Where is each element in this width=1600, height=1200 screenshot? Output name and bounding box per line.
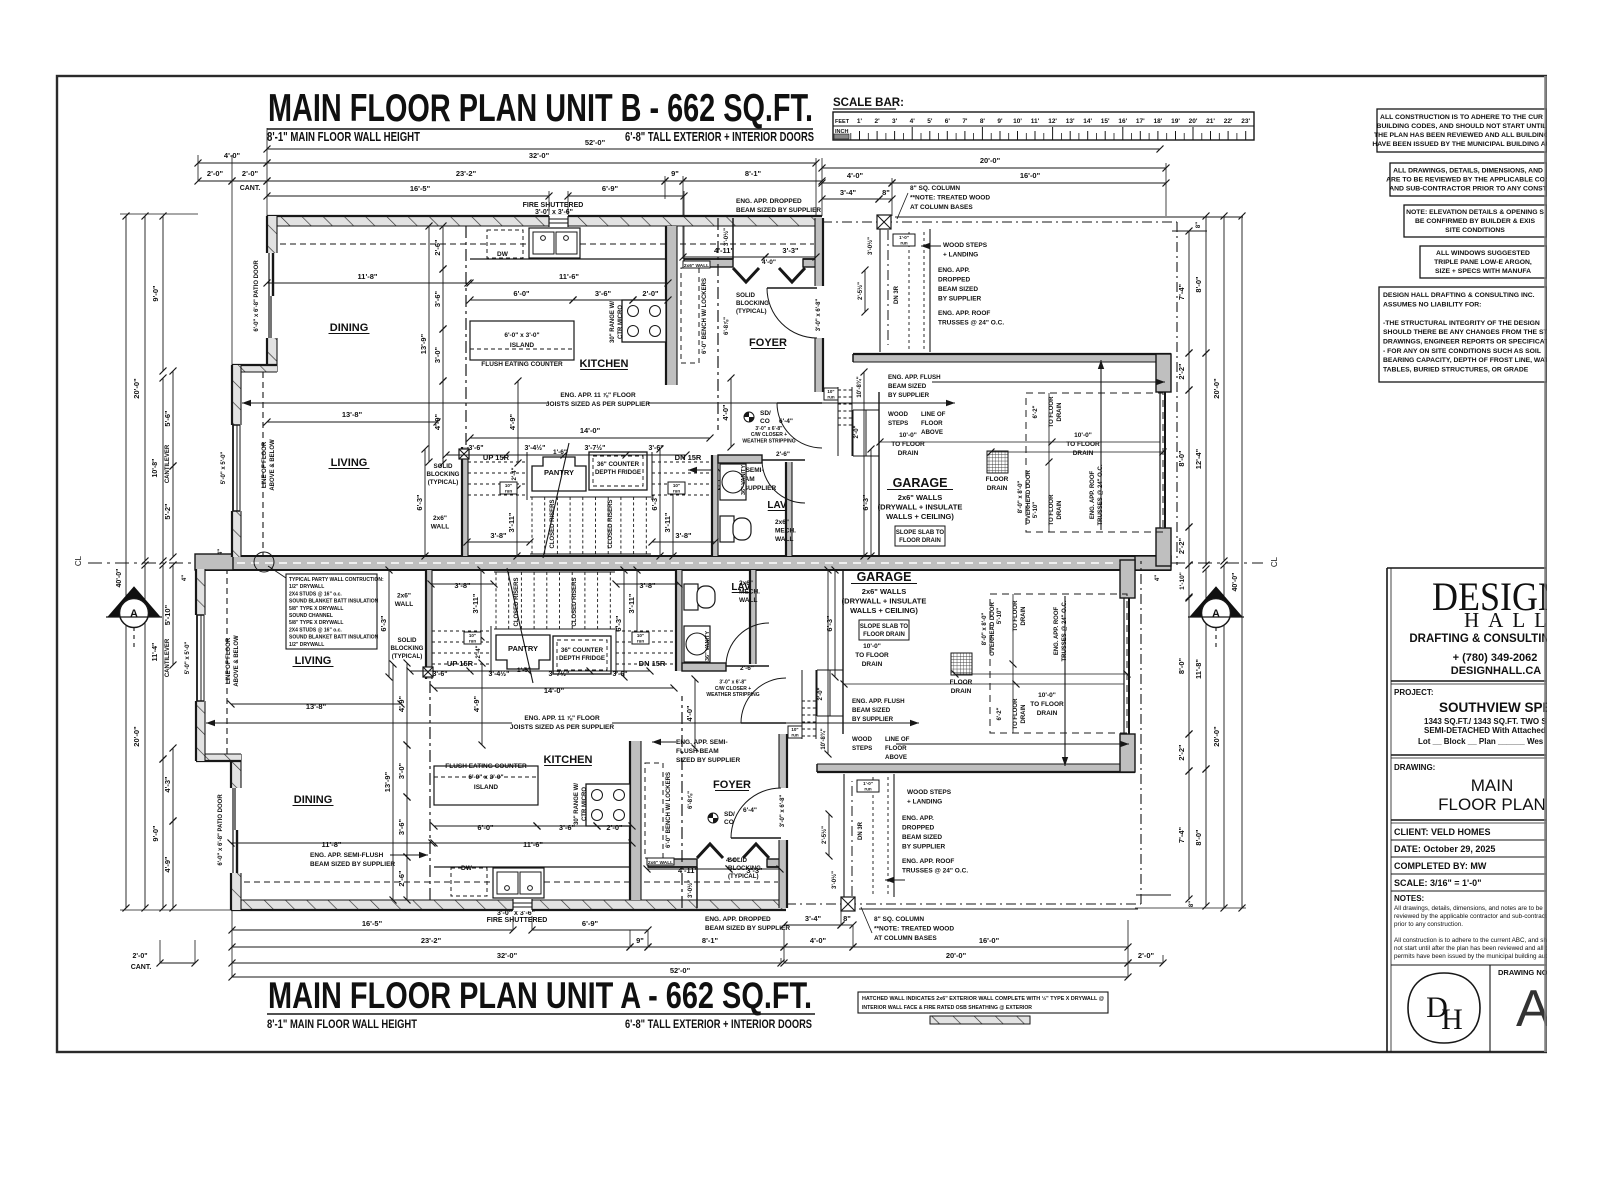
porch steps A	[843, 774, 845, 897]
svg-text:3'-0½": 3'-0½"	[687, 880, 694, 898]
svg-text:ALL WINDOWS SUGGESTED: ALL WINDOWS SUGGESTED	[1436, 250, 1530, 257]
svg-text:WEATHER STRIPPING: WEATHER STRIPPING	[742, 438, 795, 444]
svg-text:3'-4½": 3'-4½"	[489, 670, 510, 678]
garage floor drain A	[951, 653, 972, 675]
svg-text:TRUSSES @ 24" O.C.: TRUSSES @ 24" O.C.	[1062, 600, 1068, 661]
section marker right	[1190, 587, 1242, 617]
svg-text:run: run	[827, 395, 835, 400]
svg-text:(DRYWALL + INSULATE: (DRYWALL + INSULATE	[878, 502, 963, 511]
svg-text:PROJECT:: PROJECT:	[1394, 688, 1434, 697]
svg-text:TRUSSES @ 24" O.C.: TRUSSES @ 24" O.C.	[902, 868, 968, 875]
svg-text:DRAIN: DRAIN	[1057, 501, 1063, 520]
svg-text:DRAIN: DRAIN	[951, 688, 972, 695]
svg-text:11'-8": 11'-8"	[358, 272, 378, 281]
svg-text:SEMI-DETACHED With Attached: SEMI-DETACHED With Attached	[1424, 726, 1546, 735]
roof truss arrow A	[1064, 596, 1066, 766]
interior 2x6 wall at stairs A	[429, 679, 431, 900]
svg-text:FIRE SHUTTERED: FIRE SHUTTERED	[523, 202, 584, 209]
svg-text:NOTE: ELEVATION DETAILS & OPEN: NOTE: ELEVATION DETAILS & OPENING S	[1406, 209, 1544, 216]
svg-text:CLIENT: VELD HOMES: CLIENT: VELD HOMES	[1394, 827, 1491, 837]
svg-text:BLOCKING: BLOCKING	[736, 300, 769, 307]
svg-text:3'-7½": 3'-7½"	[585, 444, 606, 452]
svg-text:8": 8"	[1189, 901, 1195, 907]
svg-text:13'-9": 13'-9"	[383, 771, 392, 792]
svg-text:ISLAND: ISLAND	[510, 342, 535, 349]
svg-text:SLOPE SLAB TO: SLOPE SLAB TO	[860, 624, 909, 630]
svg-text:CANTILEVER: CANTILEVER	[165, 444, 171, 483]
svg-text:OVERHEAD DOOR: OVERHEAD DOOR	[1026, 469, 1032, 523]
svg-text:9': 9'	[997, 118, 1003, 125]
svg-text:8": 8"	[843, 914, 851, 923]
svg-text:36" VANITY: 36" VANITY	[741, 465, 747, 495]
svg-text:3'-4": 3'-4"	[805, 914, 822, 923]
svg-text:ARE TO BE REVIEWED BY THE APPL: ARE TO BE REVIEWED BY THE APPLICABLE CON	[1386, 176, 1550, 183]
lav door B	[762, 460, 805, 503]
svg-text:permits have been issued by th: permits have been issued by the municipa…	[1394, 953, 1554, 960]
svg-text:CTR MICRO: CTR MICRO	[582, 787, 588, 821]
fire shuttered window A	[513, 899, 532, 911]
foyer front wall A	[648, 859, 697, 867]
overhead door dashed B	[1026, 393, 1163, 532]
svg-text:5'-10": 5'-10"	[163, 604, 172, 625]
svg-text:TO FLOOR: TO FLOOR	[855, 652, 889, 659]
centerline CL	[88, 562, 195, 564]
svg-text:23'-2": 23'-2"	[421, 936, 442, 945]
svg-text:WEATHER STRIPPING: WEATHER STRIPPING	[706, 692, 759, 698]
svg-text:3'-6": 3'-6"	[433, 290, 442, 307]
joist arrow B	[242, 402, 700, 404]
svg-text:1'-10": 1'-10"	[1179, 572, 1186, 590]
svg-text:ENG. APP. SEMI-: ENG. APP. SEMI-	[676, 739, 728, 746]
svg-text:CANTILEVER: CANTILEVER	[165, 638, 171, 677]
svg-text:22': 22'	[1224, 118, 1233, 125]
svg-text:12': 12'	[1048, 118, 1057, 125]
svg-text:UP 15R: UP 15R	[483, 453, 510, 462]
svg-text:SD/: SD/	[724, 811, 735, 818]
svg-text:DN 15R: DN 15R	[639, 659, 666, 668]
svg-text:TO FLOOR: TO FLOOR	[1066, 441, 1100, 448]
svg-text:2x6": 2x6"	[397, 593, 411, 600]
svg-text:16': 16'	[1118, 118, 1127, 125]
svg-text:1'-0": 1'-0"	[863, 781, 873, 786]
svg-text:NOTES:: NOTES:	[1394, 894, 1424, 903]
svg-text:2'-0": 2'-0"	[642, 289, 659, 298]
svg-text:DROPPED: DROPPED	[938, 277, 970, 284]
svg-text:DRAWING:: DRAWING:	[1394, 763, 1435, 772]
svg-text:4': 4'	[910, 118, 916, 125]
svg-text:10": 10"	[827, 389, 834, 394]
svg-text:6'-0" BENCH W/ LOCKERS: 6'-0" BENCH W/ LOCKERS	[702, 278, 708, 354]
svg-text:run: run	[900, 241, 908, 246]
entry double door B	[733, 268, 759, 282]
lav walls A	[682, 663, 726, 671]
party wall end caps	[195, 554, 233, 570]
svg-text:3'-4": 3'-4"	[840, 188, 857, 197]
svg-text:FLUSH EATING COUNTER: FLUSH EATING COUNTER	[445, 763, 527, 770]
bottom dimension rows (unit A)	[232, 929, 513, 931]
svg-text:2'-5½": 2'-5½"	[821, 826, 828, 844]
svg-text:ENG. APP. DROPPED: ENG. APP. DROPPED	[736, 198, 802, 205]
svg-text:SITE CONDITIONS: SITE CONDITIONS	[1445, 227, 1505, 234]
svg-text:6'-3": 6'-3"	[614, 615, 623, 632]
svg-text:CLOSED RISERS: CLOSED RISERS	[514, 577, 520, 626]
svg-text:30" RANGE W/: 30" RANGE W/	[574, 783, 580, 825]
svg-text:prior to any construction.: prior to any construction.	[1394, 921, 1463, 928]
right dimension columns	[1171, 216, 1243, 218]
svg-text:BEAM SIZED BY SUPPLIER: BEAM SIZED BY SUPPLIER	[736, 207, 821, 214]
svg-text:HALL: HALL	[1464, 608, 1556, 632]
svg-text:BEAM SIZED: BEAM SIZED	[902, 834, 942, 841]
garage north wall A	[817, 764, 1135, 772]
svg-text:3'-8": 3'-8"	[675, 531, 692, 540]
svg-text:SCALE: 3/16" = 1'-0": SCALE: 3/16" = 1'-0"	[1394, 878, 1481, 888]
svg-text:6'-0" x 3'-0": 6'-0" x 3'-0"	[468, 774, 503, 781]
left dimension columns	[120, 213, 198, 215]
svg-text:9'-0": 9'-0"	[151, 285, 160, 302]
svg-text:9'-0": 9'-0"	[151, 825, 160, 842]
svg-text:52'-0": 52'-0"	[670, 966, 691, 975]
svg-text:8'-1" MAIN FLOOR WALL HEIGHT: 8'-1" MAIN FLOOR WALL HEIGHT	[267, 130, 420, 144]
svg-text:5'-6": 5'-6"	[163, 410, 172, 427]
svg-text:BEAM SIZED BY SUPPLIER: BEAM SIZED BY SUPPLIER	[705, 925, 790, 932]
unit B exterior walls	[232, 193, 1177, 566]
fridge B	[589, 452, 647, 490]
svg-text:ENG. APP.: ENG. APP.	[938, 267, 970, 274]
svg-text:reviewed by the applicable con: reviewed by the applicable contractor an…	[1394, 913, 1552, 920]
svg-text:DW: DW	[497, 251, 509, 258]
svg-text:ENG. APP. ROOF: ENG. APP. ROOF	[938, 310, 990, 317]
svg-text:3'-6": 3'-6"	[595, 289, 612, 298]
svg-text:C/W CLOSER +: C/W CLOSER +	[715, 686, 751, 692]
svg-text:1'-6": 1'-6"	[517, 667, 531, 674]
svg-text:DATE: October 29, 2025: DATE: October 29, 2025	[1394, 844, 1495, 854]
svg-text:19': 19'	[1171, 118, 1180, 125]
svg-text:10'-0": 10'-0"	[899, 432, 917, 439]
svg-text:BY SUPPLIER: BY SUPPLIER	[902, 844, 946, 851]
svg-text:DRAIN: DRAIN	[1021, 705, 1027, 724]
svg-text:6'-3": 6'-3"	[650, 494, 659, 511]
porch column A	[851, 781, 853, 896]
stairs DN B	[652, 461, 711, 463]
svg-text:ENG. APP.: ENG. APP.	[902, 815, 934, 822]
foyer beam dash-dot B	[717, 218, 719, 430]
svg-text:6'-3": 6'-3"	[379, 615, 388, 632]
svg-text:DRAIN: DRAIN	[862, 661, 883, 668]
porch steps B	[879, 229, 881, 352]
svg-text:TO FLOOR: TO FLOOR	[1049, 396, 1055, 428]
svg-text:SIZED BY SUPPLIER: SIZED BY SUPPLIER	[676, 757, 740, 764]
svg-text:10": 10"	[673, 483, 680, 488]
garage drain dims A	[844, 683, 1124, 685]
svg-text:6'-0" x 6'-8" PATIO DOOR: 6'-0" x 6'-8" PATIO DOOR	[218, 794, 224, 866]
svg-text:GARAGE: GARAGE	[857, 570, 912, 584]
svg-text:PANTRY: PANTRY	[544, 468, 574, 477]
closed risers A	[495, 572, 497, 629]
svg-text:12'-4": 12'-4"	[1194, 448, 1203, 469]
svg-text:DN 15R: DN 15R	[675, 453, 702, 462]
svg-text:CLOSED RISERS: CLOSED RISERS	[550, 499, 556, 548]
svg-text:DN 3R: DN 3R	[894, 285, 900, 304]
svg-text:14': 14'	[1083, 118, 1092, 125]
svg-text:3'-11": 3'-11"	[507, 512, 516, 532]
svg-text:4'-3": 4'-3"	[163, 776, 172, 793]
svg-text:3'-11": 3'-11"	[663, 512, 672, 532]
svg-text:Lot __ Block __ Plan ______: Lot __ Block __ Plan ______ Wes	[1418, 737, 1544, 746]
svg-text:FLOOR: FLOOR	[885, 745, 907, 752]
svg-text:WOOD: WOOD	[888, 411, 908, 418]
svg-text:BUILDING CODES, AND SHOULD NOT: BUILDING CODES, AND SHOULD NOT START UNT…	[1377, 123, 1547, 130]
svg-text:6'-0" x 6'-8" PATIO DOOR: 6'-0" x 6'-8" PATIO DOOR	[254, 260, 260, 332]
lav walls B	[718, 455, 762, 463]
svg-text:8": 8"	[1196, 222, 1202, 228]
window 5x5 B	[232, 425, 234, 511]
svg-text:3'-7½": 3'-7½"	[549, 670, 570, 678]
svg-text:3'-11": 3'-11"	[471, 593, 480, 613]
svg-text:(DRYWALL + INSULATE: (DRYWALL + INSULATE	[842, 596, 927, 605]
svg-text:MAIN FLOOR PLAN UNIT B - 662 S: MAIN FLOOR PLAN UNIT B - 662 SQ.FT.	[268, 87, 813, 130]
svg-text:ISLAND: ISLAND	[474, 784, 499, 791]
svg-text:10": 10"	[637, 633, 644, 638]
svg-text:CO: CO	[760, 418, 770, 425]
svg-text:20'-0": 20'-0"	[132, 726, 141, 747]
svg-text:5/8" TYPE X DRYWALL: 5/8" TYPE X DRYWALL	[289, 620, 343, 626]
svg-text:2'-6": 2'-6"	[776, 451, 790, 458]
top extension lines	[197, 155, 199, 181]
pantry B	[532, 457, 586, 491]
svg-text:23': 23'	[1241, 118, 1250, 125]
party wall construction note	[286, 574, 377, 649]
svg-text:AND SUB-CONTRACTOR PRIOR TO AN: AND SUB-CONTRACTOR PRIOR TO ANY CONST	[1389, 185, 1547, 192]
svg-text:6'-9": 6'-9"	[602, 184, 619, 193]
kitchen counter + sink A	[434, 866, 630, 868]
svg-text:DEPTH FRIDGE: DEPTH FRIDGE	[595, 469, 641, 476]
svg-text:10'-0": 10'-0"	[1038, 692, 1056, 699]
island A	[434, 766, 538, 805]
svg-text:DRAIN: DRAIN	[1021, 607, 1027, 626]
svg-text:4'-0": 4'-0"	[721, 404, 730, 421]
svg-text:TO FLOOR: TO FLOOR	[1030, 701, 1064, 708]
interior door foyer A	[731, 788, 781, 838]
interior 2x6 wall at stairs B	[465, 226, 467, 447]
svg-text:8'-0" x 8'-0": 8'-0" x 8'-0"	[982, 613, 988, 646]
svg-text:TRUSSES @ 24" O.C.: TRUSSES @ 24" O.C.	[938, 320, 1004, 327]
svg-text:CLOSED RISERS: CLOSED RISERS	[572, 577, 578, 626]
svg-text:ENG. APP. ROOF: ENG. APP. ROOF	[1090, 470, 1096, 519]
svg-text:13'-8": 13'-8"	[306, 702, 327, 711]
svg-text:40'-0": 40'-0"	[116, 569, 123, 588]
svg-text:FIRE SHUTTERED: FIRE SHUTTERED	[487, 917, 548, 924]
svg-text:8" SQ. COLUMN: 8" SQ. COLUMN	[874, 916, 924, 923]
svg-text:DROPPED: DROPPED	[902, 825, 934, 832]
svg-text:WALL: WALL	[395, 601, 413, 608]
wood steps to garage B	[852, 410, 854, 456]
svg-text:14'-0": 14'-0"	[544, 686, 565, 695]
svg-text:7'-4": 7'-4"	[1177, 826, 1186, 843]
svg-text:run: run	[791, 733, 799, 738]
svg-text:run: run	[673, 489, 681, 494]
svg-text:5/8" TYPE X DRYWALL: 5/8" TYPE X DRYWALL	[289, 606, 343, 612]
interior door foyer B	[767, 288, 817, 338]
svg-text:UP 15R: UP 15R	[447, 659, 474, 668]
svg-text:8'-1" MAIN FLOOR WALL HEIGHT: 8'-1" MAIN FLOOR WALL HEIGHT	[267, 1017, 418, 1031]
svg-text:(TYPICAL): (TYPICAL)	[428, 479, 459, 486]
svg-text:3'-8": 3'-8"	[490, 531, 507, 540]
svg-text:DRAIN: DRAIN	[898, 450, 919, 457]
svg-text:- FOR ANY ON SITE CONDITIONS S: - FOR ANY ON SITE CONDITIONS SUCH AS SOI…	[1383, 348, 1541, 355]
svg-text:ABOVE & BELOW: ABOVE & BELOW	[234, 635, 240, 687]
svg-text:2'-2": 2'-2"	[1177, 537, 1186, 554]
svg-text:2X4 STUDS @ 16" o.c.: 2X4 STUDS @ 16" o.c.	[289, 591, 342, 597]
svg-text:5'-10": 5'-10"	[997, 608, 1003, 624]
svg-text:CL: CL	[1270, 556, 1279, 567]
svg-text:11'-6": 11'-6"	[559, 272, 579, 281]
range A	[586, 784, 630, 826]
DH logo	[1408, 973, 1480, 1043]
svg-text:-THE STRUCTURAL INTEGRITY OF T: -THE STRUCTURAL INTEGRITY OF THE DESIGN	[1383, 320, 1540, 327]
kitchen counter + sink B	[470, 258, 666, 260]
pantry A	[496, 635, 550, 669]
svg-text:6'-0": 6'-0"	[513, 289, 530, 298]
svg-text:(TYPICAL): (TYPICAL)	[392, 653, 423, 660]
svg-text:3'-11": 3'-11"	[627, 593, 636, 613]
svg-text:BEAM SIZED: BEAM SIZED	[888, 383, 927, 390]
svg-text:16'-5": 16'-5"	[410, 184, 431, 193]
foyer dims A	[647, 868, 729, 870]
svg-text:6'-9": 6'-9"	[582, 919, 599, 928]
in-plan dims unit B	[267, 282, 468, 284]
svg-text:MAIN FLOOR PLAN UNIT A - 662 S: MAIN FLOOR PLAN UNIT A - 662 SQ.FT.	[268, 975, 812, 1016]
svg-text:2x6" WALLS: 2x6" WALLS	[862, 587, 906, 596]
svg-text:2x6" WALL: 2x6" WALL	[684, 263, 709, 269]
line of floor above garage B	[1176, 222, 1178, 565]
svg-text:8'-0" x 8'-0": 8'-0" x 8'-0"	[1018, 481, 1024, 514]
svg-text:STEPS: STEPS	[888, 420, 908, 427]
svg-text:ENG. APP. FLUSH: ENG. APP. FLUSH	[852, 698, 905, 705]
svg-text:DINING: DINING	[330, 322, 369, 334]
svg-text:6'-3": 6'-3"	[415, 494, 424, 511]
svg-text:4'-0": 4'-0"	[847, 171, 864, 180]
svg-text:1'-0": 1'-0"	[899, 235, 909, 240]
svg-text:TO FLOOR: TO FLOOR	[1049, 494, 1055, 526]
svg-text:BY SUPPLIER: BY SUPPLIER	[888, 392, 930, 399]
unit A exterior walls	[196, 560, 1141, 933]
svg-text:20'-0": 20'-0"	[1212, 378, 1221, 399]
svg-text:9": 9"	[671, 169, 679, 178]
svg-text:3'-0": 3'-0"	[397, 762, 406, 779]
bench dashed B	[681, 268, 699, 363]
svg-text:DRAIN: DRAIN	[1037, 710, 1058, 717]
garage floor drain B	[987, 451, 1008, 473]
svg-text:3'-0" x 6'-8": 3'-0" x 6'-8"	[719, 680, 747, 686]
svg-text:3'-6": 3'-6"	[432, 671, 447, 678]
svg-text:10": 10"	[505, 483, 512, 488]
svg-text:WALL: WALL	[775, 536, 793, 543]
svg-text:5'-0" x 5'-0": 5'-0" x 5'-0"	[185, 642, 191, 675]
svg-text:30" RANGE W/: 30" RANGE W/	[610, 301, 616, 343]
svg-text:WALLS + CEILING): WALLS + CEILING)	[850, 606, 918, 615]
svg-text:COMPLETED BY: MW: COMPLETED BY: MW	[1394, 861, 1487, 871]
svg-text:WALL: WALL	[431, 524, 449, 531]
kitchen east wall A	[630, 741, 641, 900]
svg-text:10'-8¾": 10'-8¾"	[820, 728, 827, 749]
lav toilet B	[720, 516, 734, 542]
svg-text:13'-8": 13'-8"	[342, 410, 363, 419]
line of floor above garage A	[1140, 561, 1142, 904]
svg-text:20'-0": 20'-0"	[132, 378, 141, 399]
svg-text:10'-0": 10'-0"	[1074, 432, 1092, 439]
svg-text:STEPS: STEPS	[852, 745, 872, 752]
svg-text:1/2" DRYWALL: 1/2" DRYWALL	[289, 584, 324, 590]
svg-text:LINE OF: LINE OF	[885, 736, 910, 743]
svg-text:ENG. APP. DROPPED: ENG. APP. DROPPED	[705, 916, 771, 923]
svg-text:ENG. APP. 11 ⅞" FLOOR: ENG. APP. 11 ⅞" FLOOR	[560, 392, 636, 399]
svg-text:OVERHEAD DOOR: OVERHEAD DOOR	[990, 601, 996, 655]
svg-text:SOLID: SOLID	[434, 463, 453, 470]
bottom extension lines	[231, 908, 233, 977]
svg-text:TABLES, BURIED STRUCTURES, OR: TABLES, BURIED STRUCTURES, OR GRADE	[1383, 366, 1529, 373]
svg-text:23'-2": 23'-2"	[456, 169, 477, 178]
svg-text:4'-9": 4'-9"	[472, 695, 481, 712]
svg-text:2'-0": 2'-0"	[854, 425, 860, 438]
svg-text:BY SUPPLIER: BY SUPPLIER	[938, 296, 982, 303]
svg-text:3'-0" x 6'-8": 3'-0" x 6'-8"	[780, 795, 786, 828]
svg-text:SHOULD THERE BE ANY CHANGES FR: SHOULD THERE BE ANY CHANGES FROM THE STR	[1383, 329, 1553, 336]
svg-text:8': 8'	[980, 118, 986, 125]
svg-text:DESIGN HALL DRAFTING & CONSULT: DESIGN HALL DRAFTING & CONSULTING INC.	[1383, 292, 1535, 299]
svg-text:32'-0": 32'-0"	[497, 951, 518, 960]
garage north wall B	[853, 354, 1171, 362]
bench dashed A	[645, 763, 663, 858]
svg-text:(TYPICAL): (TYPICAL)	[728, 873, 759, 880]
fire shuttered window B	[549, 215, 568, 227]
svg-text:**NOTE: TREATED WOOD: **NOTE: TREATED WOOD	[874, 926, 954, 933]
svg-text:2'-0": 2'-0"	[1138, 951, 1155, 960]
svg-text:6'-3": 6'-3"	[825, 615, 834, 632]
svg-text:LINE OF: LINE OF	[921, 411, 946, 418]
svg-text:3'-6": 3'-6"	[397, 818, 406, 835]
svg-text:2'-6": 2'-6"	[397, 870, 406, 887]
stairs UP B	[468, 461, 527, 463]
svg-text:AT COLUMN BASES: AT COLUMN BASES	[910, 204, 973, 211]
svg-text:MAIN: MAIN	[1471, 776, 1514, 795]
svg-text:SOUND BLANKET BATT INSULATION: SOUND BLANKET BATT INSULATION	[289, 599, 379, 605]
svg-text:2'-0": 2'-0"	[606, 823, 623, 832]
svg-text:SLOPE SLAB TO: SLOPE SLAB TO	[896, 530, 945, 536]
svg-text:2'-4": 2'-4"	[476, 645, 482, 658]
svg-text:4'-0": 4'-0"	[685, 705, 694, 722]
porch column B	[887, 230, 889, 345]
svg-text:HATCHED WALL INDICATES 2x6" EX: HATCHED WALL INDICATES 2x6" EXTERIOR WAL…	[862, 995, 1104, 1002]
range B	[622, 300, 666, 342]
svg-text:SOUND BLANKET BATT INSULATION: SOUND BLANKET BATT INSULATION	[289, 635, 379, 641]
svg-text:C/W CLOSER +: C/W CLOSER +	[751, 432, 787, 438]
svg-text:ABOVE & BELOW: ABOVE & BELOW	[270, 439, 276, 491]
svg-text:KITCHEN: KITCHEN	[544, 754, 593, 766]
svg-text:FEET: FEET	[835, 119, 850, 125]
svg-text:BEAM SIZED: BEAM SIZED	[852, 707, 891, 714]
svg-text:ENG. APP. ROOF: ENG. APP. ROOF	[1054, 606, 1060, 655]
svg-text:LINE OF FLOOR: LINE OF FLOOR	[262, 441, 268, 488]
svg-text:WALLS + CEILING): WALLS + CEILING)	[886, 512, 954, 521]
svg-text:3'-3": 3'-3"	[782, 246, 799, 255]
svg-text:6'-3": 6'-3"	[861, 494, 870, 511]
svg-text:DRAWING NO: DRAWING NO	[1498, 968, 1548, 977]
section marker left	[108, 587, 160, 617]
wood steps to garage A	[816, 670, 818, 716]
svg-text:3'-8": 3'-8"	[639, 581, 656, 590]
svg-text:All drawings, details, dimensi: All drawings, details, dimensions, and n…	[1394, 905, 1543, 912]
svg-text:8": 8"	[882, 188, 890, 197]
